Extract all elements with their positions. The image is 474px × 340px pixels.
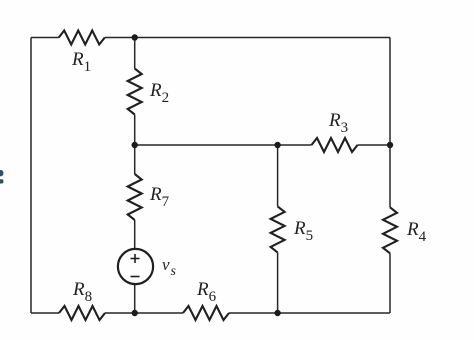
wire vs to bottom node (134, 285, 136, 313)
wire R5 branch top (277, 145, 279, 206)
vs plus sign (131, 254, 140, 263)
resistor R4 (383, 207, 397, 253)
blue page-number fragment lower stroke (0, 179, 3, 183)
label R8 (73, 280, 92, 299)
label R4 (407, 220, 426, 239)
wire middle node to R7 (134, 145, 136, 174)
resistor R1 (59, 31, 105, 45)
wire left side (30, 38, 32, 314)
resistor R8 (59, 306, 105, 320)
node dot middle A (132, 142, 138, 148)
wire R8 to bottom node A (105, 312, 183, 314)
node dot bottom B (274, 310, 280, 316)
wire bottom left corner to R8 (31, 312, 59, 314)
wire R5 branch bottom (277, 252, 279, 313)
label R5 (294, 219, 313, 238)
wire R2 to middle node (134, 115, 136, 146)
node dot middle B (274, 142, 280, 148)
wire node A to R2 (134, 38, 136, 69)
node dot top A (132, 34, 138, 40)
label R7 (150, 185, 169, 204)
wire top from R1 to top-right corner (105, 37, 390, 39)
wire R4 branch top (389, 145, 391, 207)
node dot bottom A (132, 310, 138, 316)
label R6 (197, 280, 216, 299)
resistor R6 (183, 306, 229, 320)
resistor R7 (128, 174, 142, 220)
voltage source vs circle (118, 249, 153, 284)
label R1 (72, 50, 91, 69)
label vs (162, 256, 176, 274)
blue page-number fragment upper stroke (0, 170, 3, 176)
wire R4 branch bottom (389, 253, 391, 313)
wire right side top (389, 38, 391, 146)
wire middle horizontal to R3 (135, 144, 312, 146)
wire R6 to bottom right (229, 312, 390, 314)
vs minus sign (131, 276, 140, 278)
resistor R3 (312, 138, 358, 152)
wire R3 to right node (358, 144, 391, 146)
resistor R2 (128, 69, 142, 115)
node dot middle right (387, 142, 393, 148)
wire top-left segment (31, 37, 59, 39)
wire R7 to vs (134, 220, 136, 248)
label R3 (329, 111, 348, 130)
resistor R5 (271, 206, 285, 252)
label R2 (150, 81, 169, 100)
